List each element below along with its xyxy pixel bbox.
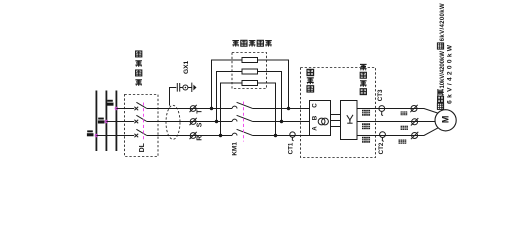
label V output xyxy=(362,123,370,129)
bus 3 label xyxy=(107,100,114,106)
bus bar 3 xyxy=(115,91,117,152)
bus 1 label xyxy=(87,130,94,136)
node: wire1 tap on bus3 (magenta) xyxy=(115,107,118,110)
contactor KM1 pole 2 xyxy=(232,115,252,121)
svg-text:CT2: CT2 xyxy=(378,142,385,154)
power unit box xyxy=(341,101,358,140)
cable shield ellipse (dashed) xyxy=(166,105,180,139)
label 功率单元 (power unit) xyxy=(360,64,367,94)
label cable (电缆) phase U xyxy=(401,111,408,115)
wire: phase T from DL to KM1 xyxy=(147,108,232,110)
svg-text:B: B xyxy=(312,115,319,120)
contactor KM1 pole 3 xyxy=(232,129,252,135)
wire: phase R KM1 to inverter xyxy=(252,135,309,137)
wire: phase S from DL to KM1 xyxy=(147,121,232,123)
junction: loop taps right xyxy=(287,107,290,110)
cable core marker V xyxy=(411,118,418,125)
switch DL pole 1 xyxy=(134,102,146,110)
svg-text:CT1: CT1 xyxy=(287,142,294,154)
reactor L1 (phase T) xyxy=(242,58,258,63)
node: wire3 tap on bus1 (magenta) xyxy=(95,134,98,137)
ground plate xyxy=(191,83,193,92)
wire: phase S KM1 to inverter xyxy=(252,121,309,123)
wire: phase T from bus3 to DL xyxy=(116,108,134,110)
ground symbol xyxy=(193,85,196,91)
cable core marker phase T xyxy=(190,105,197,112)
svg-text:M: M xyxy=(441,116,451,124)
wire: link 3 xyxy=(331,126,341,128)
current transformer CT3 xyxy=(379,106,385,112)
label W output xyxy=(362,137,370,143)
wire: link transformer to power unit 1 xyxy=(331,114,341,116)
svg-text:R: R xyxy=(196,136,203,141)
wire arrester to ground xyxy=(188,87,192,89)
switch DL pole 3 xyxy=(134,129,146,137)
bus bar 1 xyxy=(95,91,97,152)
svg-text:DL: DL xyxy=(139,142,146,152)
cable core marker U xyxy=(410,105,417,112)
disconnector DL enclosure (dashed) xyxy=(125,95,159,157)
motor M1 xyxy=(435,110,456,131)
svg-text:6kV/4200kW: 6kV/4200kW xyxy=(439,3,446,41)
cable core marker phase R xyxy=(190,132,197,139)
node: wire2 tap on bus2 (magenta) xyxy=(105,120,108,123)
svg-text:A: A xyxy=(312,126,319,131)
wire: output U to motor xyxy=(357,109,438,114)
wire: phase S from bus2 to DL xyxy=(106,121,134,123)
wire: link 2 xyxy=(331,120,341,122)
label 变频器 xyxy=(307,69,314,92)
cable core marker phase S xyxy=(190,118,197,125)
KM1 mechanical link (magenta dashed) xyxy=(243,102,245,142)
wire: phase R from bus1 to DL xyxy=(96,135,134,137)
wire: phase T KM1 to inverter xyxy=(252,108,309,110)
wire: reactor loop phase T xyxy=(212,60,243,109)
wire: phase R from DL to KM1 xyxy=(147,135,232,137)
label 进线电抗器 (line reactor, rotated 180) xyxy=(232,40,271,46)
svg-text:GX1: GX1 xyxy=(183,60,190,74)
reactor L2 (phase S) xyxy=(242,69,258,74)
transformer cabinet (box) xyxy=(310,101,331,136)
transformer symbol (two circles) xyxy=(318,118,325,125)
label 隔离开关 (isolating switch) xyxy=(135,51,142,86)
inverter enclosure 变频器 (dashed) xyxy=(301,68,376,158)
wire: reactor loop phase S xyxy=(217,72,243,122)
junction: loop taps left xyxy=(210,107,213,110)
label U output xyxy=(362,110,370,116)
svg-text:C: C xyxy=(312,103,319,108)
arrester GX1 (circle) xyxy=(183,85,188,90)
svg-text:KM1: KM1 xyxy=(232,142,239,156)
wire to arrester xyxy=(180,87,183,89)
wire: shield ground riser xyxy=(170,88,177,106)
current transformer CT1 xyxy=(290,132,295,137)
wire: reactor loop phase R xyxy=(221,83,243,136)
svg-text:S: S xyxy=(196,122,203,127)
svg-text:CT3: CT3 xyxy=(377,89,384,101)
label cable phase W xyxy=(399,140,407,144)
bus 2 label xyxy=(98,118,105,124)
reactor L3 (phase R) xyxy=(242,81,258,86)
contactor KM1 pole 1 xyxy=(232,102,252,108)
cable core marker W xyxy=(411,132,418,139)
note: motor rating 10kV/4200kW or 6kV/4200kW xyxy=(437,3,453,109)
reactor enclosure (dashed) xyxy=(232,53,267,89)
label cable phase V xyxy=(401,126,408,130)
wire: output W to motor xyxy=(357,128,438,136)
bus bar 2 xyxy=(105,91,107,152)
surge absorber GX1 capacitor plates xyxy=(176,83,178,92)
DL mechanical link (magenta dashed) xyxy=(143,103,145,142)
switch DL pole 2 xyxy=(134,115,146,123)
wire: output V to motor xyxy=(357,121,435,123)
svg-text:6kV/4200kW: 6kV/4200kW xyxy=(447,43,454,104)
power unit inner symbol xyxy=(347,115,353,123)
current transformer CT2 xyxy=(380,132,386,138)
svg-text:10kV/4200kW: 10kV/4200kW xyxy=(439,51,446,89)
